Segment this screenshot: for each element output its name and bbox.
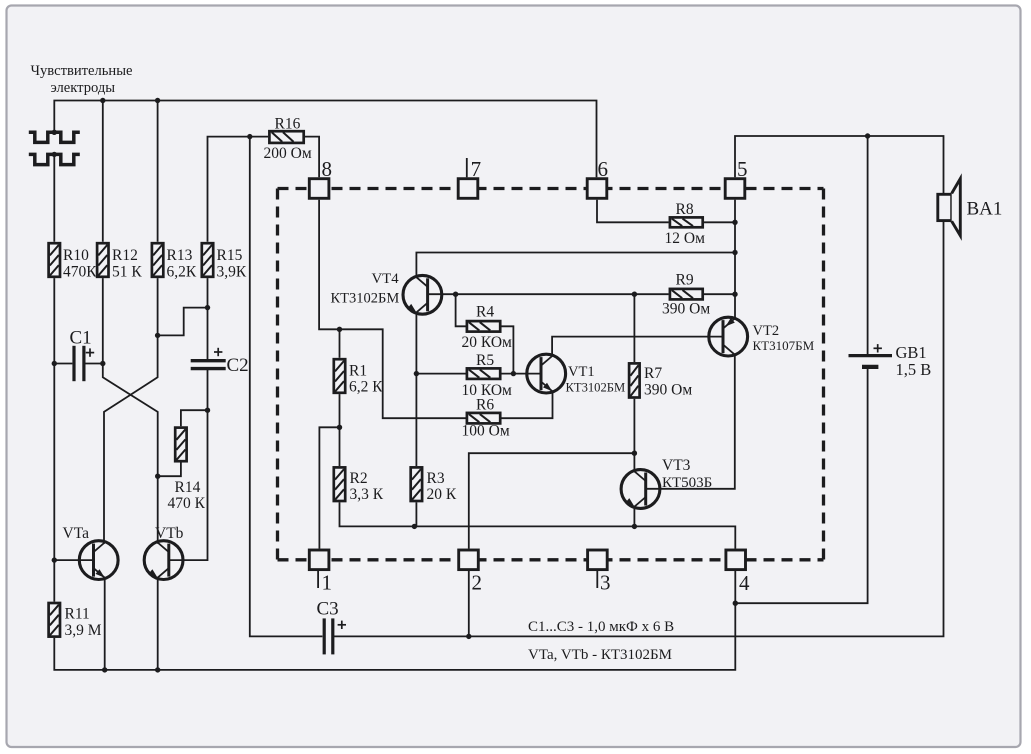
wire pin 8 to R1-top node and R6 left bbox=[319, 200, 468, 419]
node R1 top bbox=[337, 327, 342, 332]
wire R5 right to VT1 base bbox=[501, 373, 541, 375]
wire supply rail R16-left down to C3 bbox=[250, 137, 323, 637]
wire VT3 collector lead bbox=[633, 453, 635, 471]
svg-text:R6: R6 bbox=[476, 397, 494, 414]
svg-text:электроды: электроды bbox=[51, 80, 116, 96]
wire C2 bottom to VTb base bbox=[169, 370, 207, 560]
wire R14 top lead bbox=[181, 410, 208, 426]
pin 7 bbox=[458, 157, 481, 198]
node R9 right / VT2 emitter bbox=[732, 292, 737, 297]
svg-text:R3: R3 bbox=[427, 470, 445, 487]
svg-text:R11: R11 bbox=[65, 605, 90, 622]
wire GB1 top lead bbox=[867, 136, 869, 354]
node R16 left / supply rail bbox=[247, 134, 252, 139]
svg-text:12 Ом: 12 Ом bbox=[665, 230, 706, 247]
pin 1 bbox=[309, 550, 332, 595]
svg-text:VT2: VT2 bbox=[753, 323, 780, 339]
svg-text:R14: R14 bbox=[175, 479, 201, 496]
svg-text:51 К: 51 К bbox=[112, 263, 142, 280]
wire R2 top lead bbox=[339, 427, 341, 466]
wire pin 2 bottom to C3 line bbox=[468, 571, 470, 636]
resistor R9 bbox=[662, 271, 710, 317]
pin 3 bbox=[588, 550, 611, 595]
resistor R6 bbox=[462, 397, 510, 440]
wire VTb emitter to ground rail bbox=[157, 578, 159, 670]
wire VT4 collector to pin5 rail bbox=[416, 253, 735, 278]
node VTa emitter / ground rail bbox=[102, 667, 107, 672]
svg-text:BA1: BA1 bbox=[967, 199, 1003, 220]
wire C1 right lead bbox=[86, 363, 103, 365]
node pin2 / C3 line bbox=[466, 634, 471, 639]
svg-text:390 Ом: 390 Ом bbox=[662, 301, 710, 318]
svg-text:8: 8 bbox=[322, 157, 333, 181]
svg-text:470К: 470К bbox=[63, 263, 97, 280]
svg-text:7: 7 bbox=[471, 157, 482, 181]
wire R7 bottom to VT3 node bbox=[633, 399, 635, 453]
node R3 bottom / IC ground bbox=[412, 524, 417, 529]
wire R16 right to pin 8 bbox=[305, 137, 319, 178]
svg-text:Чувствительные: Чувствительные bbox=[31, 63, 133, 79]
capacitor C1 bbox=[70, 328, 95, 382]
node VT3 emitter / IC ground bbox=[632, 524, 637, 529]
node top rail / R13 bbox=[155, 98, 160, 103]
resistor R15 bbox=[202, 243, 247, 280]
svg-text:КТ503Б: КТ503Б bbox=[662, 475, 712, 491]
wire R14 bottom lead bbox=[158, 463, 181, 477]
resistor R11 bbox=[49, 603, 102, 639]
svg-text:3,9 М: 3,9 М bbox=[65, 622, 102, 639]
node C1 right / R12 line bbox=[100, 361, 105, 366]
wire R4 right to R5 node bbox=[501, 326, 513, 373]
svg-text:1,5 В: 1,5 В bbox=[896, 360, 932, 379]
node R14 top / C2 line bbox=[205, 408, 210, 413]
svg-text:R2: R2 bbox=[350, 470, 368, 487]
node VT4 base / R4 bbox=[453, 292, 458, 297]
wire pin 5 top to speaker bbox=[735, 136, 944, 194]
resistor R8 bbox=[665, 201, 706, 247]
wire pin 6 to R8 left bbox=[597, 200, 669, 223]
svg-text:R9: R9 bbox=[676, 271, 694, 288]
svg-text:6,2К: 6,2К bbox=[167, 263, 197, 280]
wire R2 bottom + IC ground to pin 4 bbox=[340, 502, 736, 548]
resistor R12 bbox=[97, 243, 142, 280]
transistor VT1 bbox=[527, 354, 566, 393]
sensitive electrode top comb bbox=[29, 132, 80, 142]
svg-text:КТ3102БМ: КТ3102БМ bbox=[566, 380, 626, 394]
wire VT3 emitter lead bbox=[633, 507, 635, 526]
speaker BA1 bbox=[938, 179, 1003, 236]
svg-text:4: 4 bbox=[739, 571, 750, 595]
svg-text:C2: C2 bbox=[227, 355, 249, 376]
node R5 left / VT4 emitter line bbox=[414, 371, 419, 376]
wire R7 top lead bbox=[633, 294, 635, 362]
svg-text:С1...С3 - 1,0 мкФ х 6 В: С1...С3 - 1,0 мкФ х 6 В bbox=[528, 619, 674, 635]
svg-text:C3: C3 bbox=[317, 599, 339, 620]
resistor R14 bbox=[168, 428, 206, 512]
svg-text:20 К: 20 К bbox=[427, 486, 457, 503]
node VTb emitter / ground rail bbox=[155, 667, 160, 672]
wire R11 to bottom ground rail to pin 4 bbox=[54, 571, 735, 670]
pin 8 bbox=[309, 157, 332, 198]
node VT4 collector / pin5 rail bbox=[732, 250, 737, 255]
wire zigzag R13 node to R15 line bbox=[158, 308, 208, 336]
capacitor C2 bbox=[191, 348, 249, 376]
pin 7 stub bbox=[466, 158, 468, 177]
wire VT4 base row to R9 left bbox=[428, 293, 669, 295]
resistor R5 bbox=[462, 352, 513, 399]
svg-text:R7: R7 bbox=[644, 365, 662, 382]
resistor R13 bbox=[152, 243, 197, 280]
wire VT4 emitter to R3 bbox=[415, 313, 417, 466]
svg-text:VTa, VTb - КТ3102БМ: VTa, VTb - КТ3102БМ bbox=[528, 647, 672, 663]
node C1 left / R10 line bbox=[52, 361, 57, 366]
svg-text:200 Ом: 200 Ом bbox=[264, 145, 312, 162]
sensitive electrode bottom comb bbox=[29, 154, 80, 164]
wire C1 left lead bbox=[54, 363, 72, 365]
wire R13 to VTa collector (cross diagonal) bbox=[104, 278, 158, 544]
svg-text:6: 6 bbox=[598, 157, 609, 181]
resistor R4 bbox=[462, 304, 513, 352]
svg-text:20 КОм: 20 КОм bbox=[462, 334, 513, 351]
svg-text:100 Ом: 100 Ом bbox=[462, 422, 510, 439]
transistor VTb bbox=[144, 541, 183, 580]
wire top rail from electrodes to pin 6 bbox=[54, 101, 596, 178]
svg-text:R8: R8 bbox=[676, 201, 694, 218]
wire speaker down to C3 line bbox=[334, 221, 944, 637]
wire R13 top lead bbox=[157, 101, 159, 242]
resistor R16 bbox=[264, 115, 312, 162]
node top rail / R12 bbox=[100, 98, 105, 103]
svg-text:3,9К: 3,9К bbox=[217, 263, 247, 280]
svg-text:R16: R16 bbox=[275, 115, 301, 132]
node R7 top / R9 row bbox=[632, 292, 637, 297]
node VTa base / R10 line bbox=[52, 557, 57, 562]
wire R5 left lead bbox=[416, 373, 467, 375]
svg-text:390 Ом: 390 Ом bbox=[644, 382, 692, 399]
wire R12 top lead bbox=[102, 101, 104, 242]
wire R8 right lead bbox=[704, 221, 735, 223]
resistor R10 bbox=[49, 243, 98, 280]
wire R9 right lead bbox=[704, 293, 735, 295]
pin 6 bbox=[587, 157, 608, 198]
node GB1 plus bbox=[865, 133, 870, 138]
svg-text:1: 1 bbox=[322, 571, 333, 595]
wire VTa emitter to ground rail bbox=[104, 578, 106, 670]
svg-text:R4: R4 bbox=[476, 304, 494, 321]
pin 5 bbox=[725, 157, 747, 198]
svg-text:VT3: VT3 bbox=[662, 457, 691, 474]
node R15 line / zigzag bbox=[205, 305, 210, 310]
node R7 bottom / VT3 collector bbox=[632, 451, 637, 456]
pin 2 bbox=[459, 550, 482, 595]
transistor VT4 bbox=[403, 275, 442, 314]
svg-text:5: 5 bbox=[737, 157, 748, 181]
wire R1 bottom lead bbox=[339, 394, 341, 427]
node GB1 minus / pin4 rail bbox=[733, 601, 738, 606]
svg-text:VTb: VTb bbox=[155, 525, 184, 542]
svg-text:VTa: VTa bbox=[63, 525, 90, 542]
wire pin 5 vertical to VT2 emitter bbox=[734, 200, 736, 319]
svg-text:R12: R12 bbox=[112, 247, 138, 264]
node top electrode bbox=[52, 130, 57, 135]
node R5 right / VT1 base bbox=[511, 371, 516, 376]
wire R15 top to R16 left bbox=[208, 137, 269, 242]
wire R10 to R11 (left rail) bbox=[53, 278, 55, 601]
svg-text:470 К: 470 К bbox=[168, 495, 206, 512]
wire pin 2 to VT3 node bbox=[469, 453, 635, 548]
wire bottom electrode to R10 bbox=[53, 154, 55, 241]
svg-text:VT4: VT4 bbox=[372, 271, 400, 287]
wire VT1 collector to VT2 base bbox=[552, 337, 723, 356]
svg-text:R13: R13 bbox=[167, 247, 193, 264]
pin 4 bbox=[726, 550, 750, 595]
node R8 right / pin5 rail bbox=[732, 220, 737, 225]
capacitor C3 bbox=[317, 599, 347, 655]
wire GB1 bottom to pin4 rail bbox=[735, 368, 867, 603]
svg-text:R5: R5 bbox=[476, 352, 494, 369]
transistor VTa bbox=[79, 541, 118, 580]
svg-text:КТ3102БМ: КТ3102БМ bbox=[331, 291, 400, 307]
wire R12 to VTb collector (cross diagonal) bbox=[103, 278, 158, 544]
svg-text:КТ3107БМ: КТ3107БМ bbox=[753, 338, 815, 353]
svg-text:3: 3 bbox=[600, 571, 611, 595]
wire R15 bottom to C2 top bbox=[207, 278, 209, 359]
wire R6 right to VT1 emitter bbox=[501, 392, 552, 418]
node bottom electrode bbox=[52, 152, 57, 157]
svg-text:3,3 К: 3,3 К bbox=[350, 486, 384, 503]
svg-text:R15: R15 bbox=[217, 247, 243, 264]
resistor R1 bbox=[334, 359, 383, 396]
resistor R3 bbox=[411, 467, 457, 503]
svg-text:R10: R10 bbox=[63, 247, 89, 264]
transistor VT2 bbox=[709, 317, 748, 356]
pin 1 stub bbox=[317, 571, 319, 588]
wire node to R4 left bbox=[456, 294, 468, 326]
pin 3 stub bbox=[596, 571, 598, 588]
wire R1 top lead bbox=[339, 329, 341, 358]
wire VT3 base to VT2 collector bbox=[646, 354, 735, 488]
resistor R7 bbox=[629, 363, 692, 398]
resistor R2 bbox=[334, 467, 384, 503]
battery GB1 bbox=[849, 343, 932, 379]
transistor VT3 bbox=[621, 470, 660, 509]
node R1 bottom / R2 top bbox=[337, 425, 342, 430]
wire R1 bottom node to pin 1 bbox=[319, 427, 339, 548]
svg-text:VT1: VT1 bbox=[568, 364, 595, 380]
svg-text:2: 2 bbox=[472, 571, 483, 595]
svg-text:R1: R1 bbox=[349, 363, 367, 380]
IC dashed border bbox=[278, 189, 824, 560]
node R14 bottom / VTb collector bbox=[155, 474, 160, 479]
svg-text:6,2 К: 6,2 К bbox=[349, 379, 383, 396]
wire VTa base from left rail bbox=[54, 559, 93, 561]
node R13 line / zigzag bbox=[155, 333, 160, 338]
svg-text:C1: C1 bbox=[70, 328, 92, 349]
wire R3 bottom lead bbox=[415, 502, 417, 526]
